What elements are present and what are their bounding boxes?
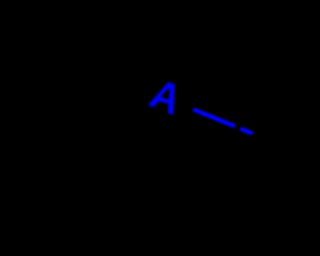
wire core (bond segment 1 bright center) <box>194 110 234 126</box>
wire (bond segment 1) <box>193 109 235 126</box>
wire (bond segment 2 after crossing gap) <box>240 129 252 134</box>
wire core (bond segment 2 bright center) <box>241 129 252 133</box>
node A (atom label) <box>148 78 184 115</box>
